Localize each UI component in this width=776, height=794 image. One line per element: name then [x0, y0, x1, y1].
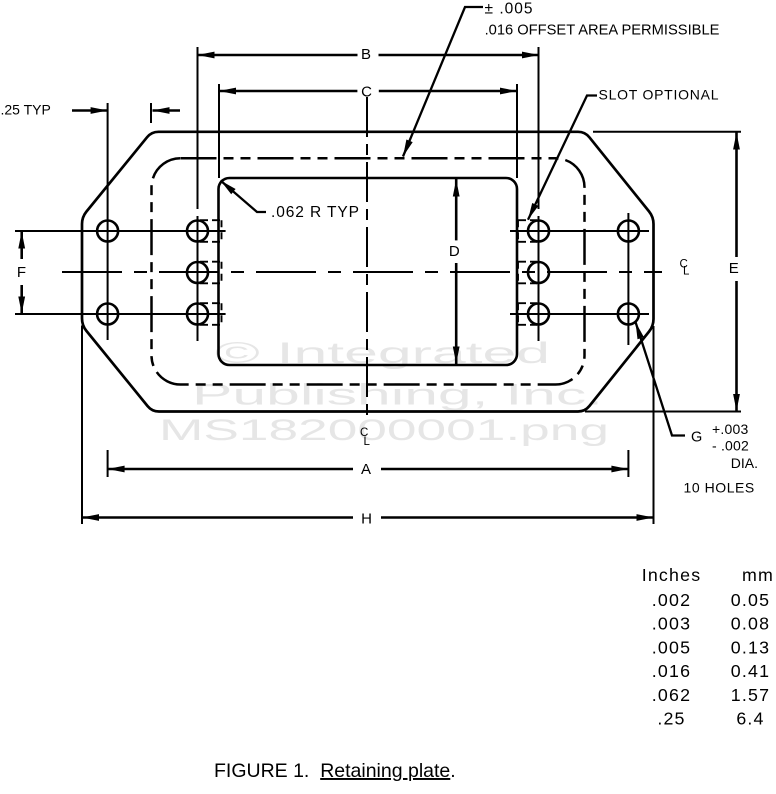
hole 3 [187, 221, 208, 242]
svg-text:.003: .003 [652, 614, 691, 634]
leader slot optional [528, 96, 597, 220]
svg-text:.062: .062 [652, 685, 691, 705]
hole column centerline left outer [107, 103, 109, 340]
svg-text:0.05: 0.05 [731, 590, 770, 610]
svg-text:.25: .25 [657, 709, 685, 729]
svg-text:.002: .002 [652, 590, 691, 610]
optional slot outline left hole row 1 [200, 220, 222, 242]
extension line H right [653, 326, 655, 524]
dimension A line [108, 466, 629, 473]
hole row line bottom left [15, 313, 226, 315]
dimension D line [453, 179, 460, 364]
offset area phantom outline [152, 158, 585, 384]
dimension B line [198, 52, 540, 59]
svg-text:L: L [364, 436, 371, 448]
leader .062 R TYP [221, 181, 267, 213]
extension line H left [81, 326, 83, 525]
hole column centerline right inner / B extension [538, 47, 540, 341]
svg-text:B: B [361, 46, 371, 63]
dimension E line [733, 132, 740, 411]
hole 2 [97, 304, 118, 325]
hole 9 [618, 221, 639, 242]
dimension C line [219, 88, 517, 95]
svg-text:H: H [361, 511, 372, 528]
dimension .25 TYP arrow 2 [153, 107, 181, 114]
dimension F line [18, 232, 25, 314]
svg-text:.016: .016 [652, 661, 691, 681]
optional slot outline left hole row 3 [200, 303, 222, 325]
svg-text:SLOT OPTIONAL: SLOT OPTIONAL [599, 87, 720, 103]
optional slot outline right hole row 2 [518, 262, 537, 284]
svg-text:.005: .005 [652, 637, 691, 657]
hole 6 [528, 221, 549, 242]
optional slot outline right hole row 1 [518, 220, 537, 242]
centerline symbol right [680, 259, 691, 278]
hole 4 [187, 262, 208, 283]
extension line E top [593, 131, 741, 133]
svg-text:L: L [683, 266, 690, 278]
extension line A right [627, 450, 629, 477]
hole 8 [528, 304, 549, 325]
svg-text:mm: mm [742, 565, 774, 585]
svg-text:F: F [17, 264, 26, 281]
hole 5 [187, 304, 208, 325]
optional slot outline left hole row 2 [200, 262, 222, 284]
svg-text:1.57: 1.57 [731, 685, 770, 705]
svg-text:FIGURE 1. Retaining plate.: FIGURE 1. Retaining plate. [214, 760, 456, 782]
svg-text:6.4: 6.4 [736, 709, 764, 729]
inner cavity rectangle [219, 178, 518, 365]
centerline symbol bottom [360, 427, 371, 448]
hole row line bottom right [510, 313, 649, 315]
hole 1 [97, 221, 118, 242]
hole row line top right [510, 230, 649, 232]
leader offset area note [403, 7, 483, 157]
svg-text:Inches: Inches [642, 565, 702, 585]
extension line C left [218, 84, 220, 178]
svg-text:D: D [449, 243, 460, 260]
extension line A left [107, 450, 109, 477]
svg-text:.25 TYP: .25 TYP [1, 102, 51, 118]
svg-text:± .005: ± .005 [485, 1, 534, 18]
svg-text:.016 OFFSET AREA PERMISSIBLE: .016 OFFSET AREA PERMISSIBLE [485, 23, 720, 39]
svg-text:A: A [361, 461, 371, 478]
svg-text:C: C [361, 84, 372, 101]
svg-text:0.41: 0.41 [731, 661, 770, 681]
dimension .25 TYP arrow 1 [72, 107, 108, 114]
svg-text:.062 R TYP: .062 R TYP [271, 204, 360, 221]
svg-text:- .002: - .002 [712, 437, 749, 453]
svg-text:0.08: 0.08 [731, 614, 770, 634]
hole 7 [528, 262, 549, 283]
svg-text:DIA.: DIA. [731, 455, 758, 471]
svg-text:E: E [729, 260, 739, 277]
conversion table [642, 565, 774, 729]
plate outline (octagon) [82, 132, 654, 412]
svg-text:0.13: 0.13 [731, 637, 770, 657]
extension line E bottom [585, 411, 741, 413]
svg-text:MS182000001.png: MS182000001.png [159, 414, 609, 447]
extension line C right [516, 84, 518, 178]
svg-text:10 HOLES: 10 HOLES [684, 479, 755, 495]
hole column centerline right outer [627, 213, 629, 345]
svg-text:G: G [691, 430, 702, 446]
optional slot outline right hole row 3 [518, 303, 537, 325]
hole row line top left [15, 230, 226, 232]
dimension H line [82, 514, 654, 521]
svg-text:+.003: +.003 [712, 421, 748, 437]
hole 10 [618, 304, 639, 325]
horizontal centerline [62, 271, 662, 273]
dimension .25 TYP tick [150, 103, 152, 123]
leader hole diameter G [636, 322, 686, 436]
vertical centerline [366, 97, 368, 421]
hole column centerline left inner / B extension [197, 47, 199, 341]
